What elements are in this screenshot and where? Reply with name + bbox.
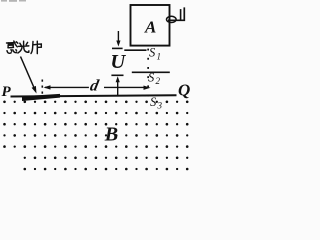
svg-text:U: U (110, 51, 126, 73)
svg-text:S: S (148, 70, 155, 84)
d left boundary dashed tick (42, 80, 44, 94)
dimension d arrow (45, 86, 89, 88)
device A box (131, 5, 170, 46)
terminal hook loop (167, 16, 177, 22)
svg-text:P: P (2, 84, 12, 100)
slit axis dashed line (147, 49, 149, 97)
lower plate left tick (111, 74, 123, 76)
svg-text:B: B (104, 123, 118, 145)
caption photosensitive-film (Chinese) (7, 41, 42, 54)
svg-text:1: 1 (157, 52, 162, 62)
svg-text:2: 2 (156, 76, 161, 86)
terminal hook wire (168, 7, 184, 20)
photosensitive film (22, 94, 60, 101)
svg-text:S: S (149, 46, 156, 60)
lower plate right segment (132, 71, 170, 73)
U gap up arrow (117, 79, 119, 95)
watermark remnant top-left (1, 0, 26, 2)
svg-text:A: A (144, 17, 156, 36)
terminal hook inner prong (180, 9, 182, 20)
upper plate left tick (112, 47, 123, 49)
magnetic field region dots (3, 101, 188, 171)
upper plate right segment (124, 49, 146, 51)
U gap down arrow (117, 31, 119, 44)
svg-text:Q: Q (178, 81, 190, 100)
svg-text:d: d (89, 77, 101, 94)
film pointer arrow (21, 57, 35, 90)
screen line P-Q (11, 95, 177, 96)
